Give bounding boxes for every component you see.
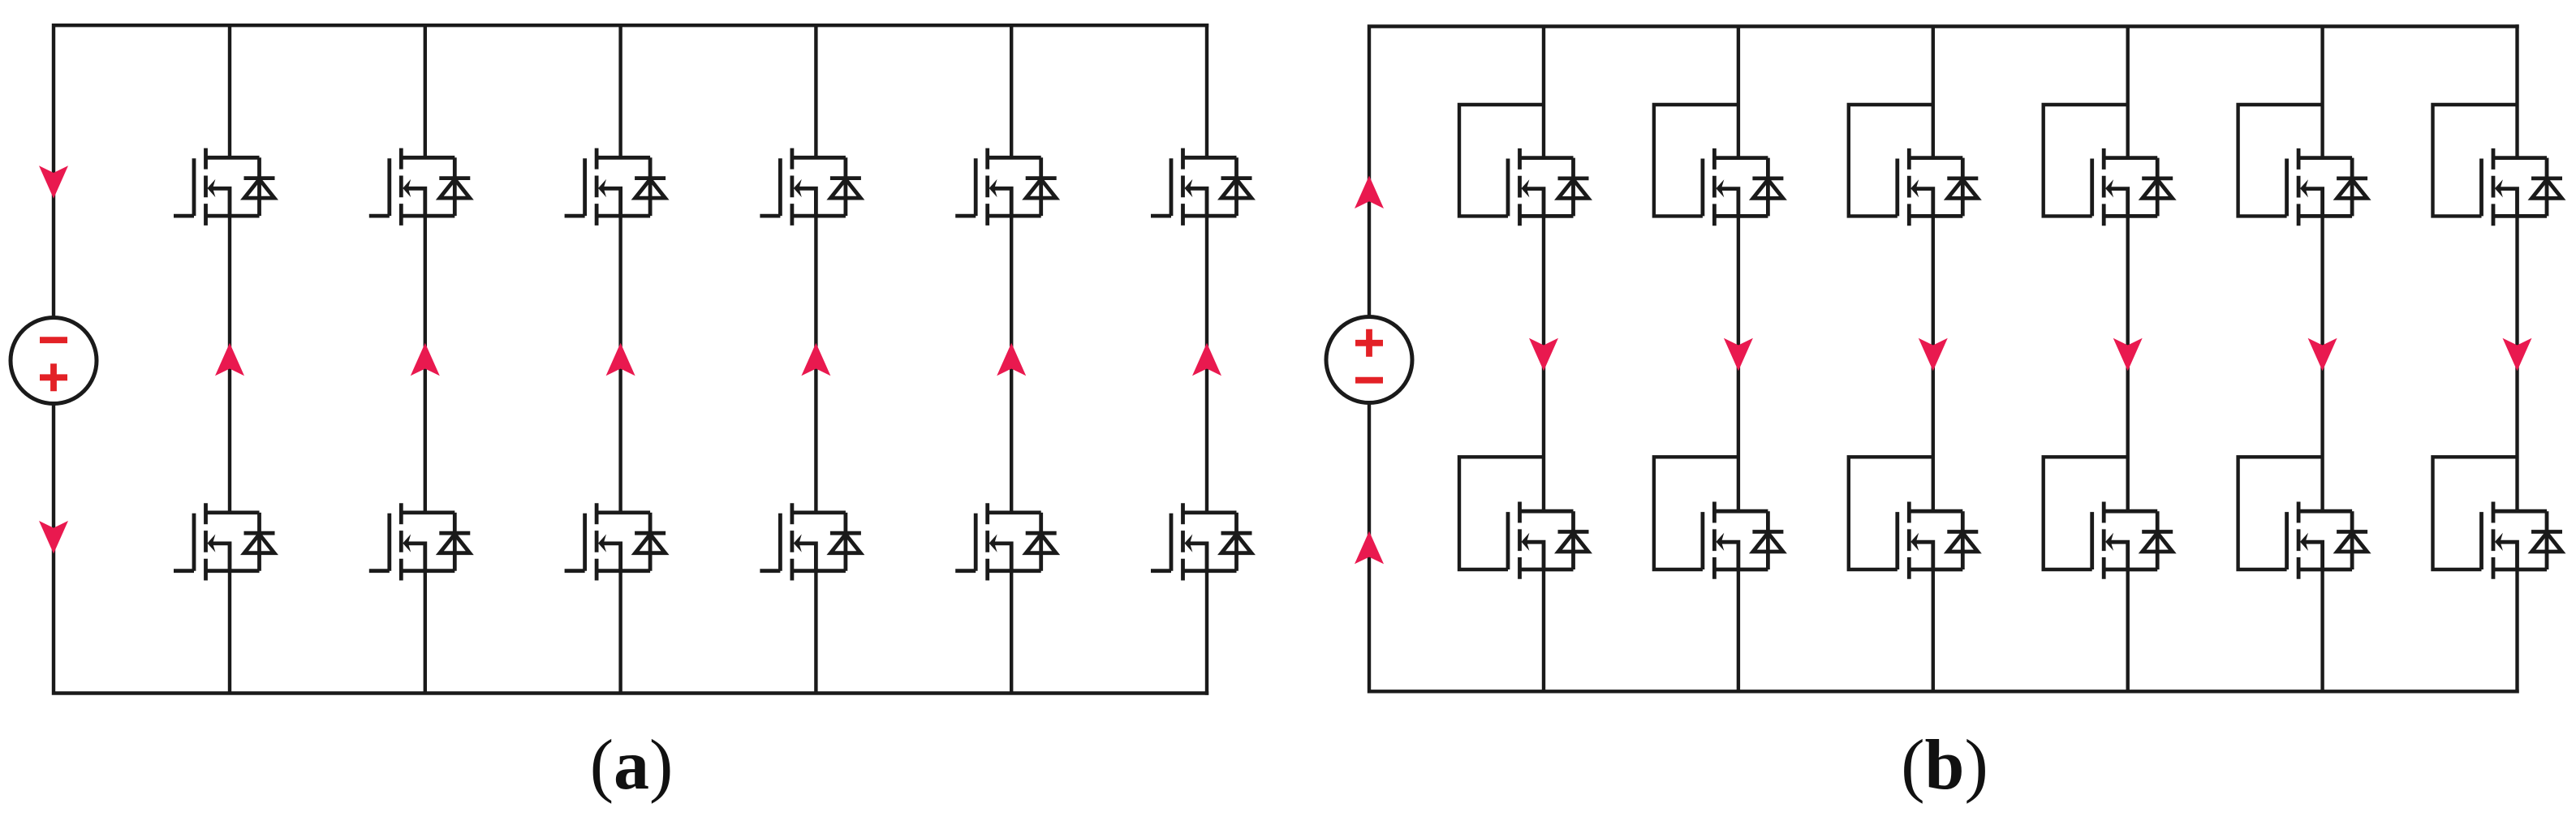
- voltage source V2 (circuit b): [1326, 317, 1412, 403]
- transistor Q3 with body diode (a, branch 3, high side): [565, 148, 666, 226]
- current arrow: upward on (a) branch 1: [215, 343, 244, 376]
- transistor Q14 with gate tied to drain (b, branch 2, high side): [1654, 105, 1784, 226]
- transistor Q4 with body diode (a, branch 4, high side): [760, 148, 861, 226]
- transistor Q13 with gate tied to drain (b, branch 1, high side): [1459, 105, 1589, 226]
- current arrow: upward on (a) branch 5: [997, 343, 1026, 376]
- transistor Q20 with gate tied to drain (b, branch 2, low side): [1654, 457, 1784, 579]
- V1 minus terminal label: [40, 337, 67, 343]
- current arrow: downward on (b) branch 1: [1529, 338, 1558, 372]
- transistor Q18 with gate tied to drain (b, branch 6, high side): [2433, 105, 2563, 226]
- transistor Q10 with body diode (a, branch 4, low side): [760, 503, 861, 580]
- svg-text:(a): (a): [590, 726, 674, 805]
- V2 minus terminal label: [1355, 377, 1383, 384]
- current arrow: upward on (a) branch 4: [801, 343, 830, 376]
- wire: (a) branch 3 vertical segments: [618, 25, 622, 693]
- current arrow: downward on (b) branch 4: [2113, 338, 2143, 372]
- transistor Q5 with body diode (a, branch 5, high side): [955, 148, 1057, 226]
- wire: (a) branch 2 vertical segments: [424, 25, 427, 693]
- transistor Q12 with body diode (a, branch 6, low side): [1151, 503, 1252, 580]
- current arrow: upward on (b) left conductor, lower: [1355, 531, 1384, 565]
- wire: circuit (a) left conductor (lower) and bottom rail: [54, 404, 1208, 694]
- transistor Q19 with gate tied to drain (b, branch 1, low side): [1459, 457, 1589, 579]
- current arrow: upward on (a) branch 6: [1192, 343, 1221, 376]
- transistor Q15 with gate tied to drain (b, branch 3, high side): [1849, 105, 1979, 226]
- transistor Q22 with gate tied to drain (b, branch 4, low side): [2044, 457, 2173, 579]
- wire: (a) branch 1 vertical segments: [228, 25, 231, 693]
- current arrow: downward on (a) left conductor, upper: [39, 165, 68, 199]
- wire: circuit (b) left conductor (lower) and bottom rail: [1369, 403, 2519, 692]
- current arrow: downward on (b) branch 2: [1724, 338, 1753, 372]
- transistor Q11 with body diode (a, branch 5, low side): [955, 503, 1057, 580]
- wire: (b) branch 3 vertical segments: [1932, 27, 1935, 692]
- wire: (b) branch 5 vertical segments: [2320, 27, 2324, 692]
- current arrow: downward on (b) branch 3: [1919, 338, 1948, 372]
- transistor Q6 with body diode (a, branch 6, high side): [1151, 148, 1252, 226]
- current arrow: downward on (a) left conductor, lower: [39, 521, 68, 554]
- current arrow: upward on (a) branch 3: [606, 343, 635, 376]
- voltage source V1 (circuit a): [11, 318, 97, 404]
- current arrow: upward on (a) branch 2: [411, 343, 440, 376]
- current arrow: downward on (b) branch 6: [2503, 338, 2532, 372]
- transistor Q9 with body diode (a, branch 3, low side): [565, 503, 666, 580]
- transistor Q21 with gate tied to drain (b, branch 3, low side): [1849, 457, 1979, 579]
- transistor Q17 with gate tied to drain (b, branch 5, high side): [2238, 105, 2368, 226]
- wire: (a) branch 4 vertical segments: [814, 25, 817, 693]
- wire: (b) branch 1 vertical segments: [1542, 27, 1545, 692]
- transistor Q2 with body diode (a, branch 2, high side): [369, 148, 471, 226]
- transistor Q16 with gate tied to drain (b, branch 4, high side): [2044, 105, 2173, 226]
- wire: (b) branch 4 vertical segments: [2126, 27, 2129, 692]
- svg-text:(b): (b): [1901, 726, 1988, 805]
- wire: (b) branch 2 vertical segments: [1737, 27, 1740, 692]
- wire: circuit (a) left conductor (upper) and top rail: [54, 25, 1208, 317]
- transistor Q8 with body diode (a, branch 2, low side): [369, 503, 471, 580]
- current arrow: downward on (b) branch 5: [2308, 338, 2337, 372]
- transistor Q7 with body diode (a, branch 1, low side): [174, 503, 275, 580]
- transistor Q1 with body diode (a, branch 1, high side): [174, 148, 275, 226]
- current arrow: upward on (b) left conductor, upper: [1355, 176, 1384, 209]
- wire: circuit (b) left conductor (upper) and top rail: [1369, 27, 2519, 317]
- V1 plus terminal label: [40, 363, 67, 391]
- wire: (a) branch 6 vertical segments: [1205, 24, 1208, 695]
- transistor Q23 with gate tied to drain (b, branch 5, low side): [2238, 457, 2368, 579]
- V2 plus terminal label: [1355, 329, 1383, 357]
- transistor Q24 with gate tied to drain (b, branch 6, low side): [2433, 457, 2563, 579]
- wire: (a) branch 5 vertical segments: [1010, 25, 1013, 693]
- wire: (b) branch 6 vertical segments: [2515, 24, 2518, 693]
